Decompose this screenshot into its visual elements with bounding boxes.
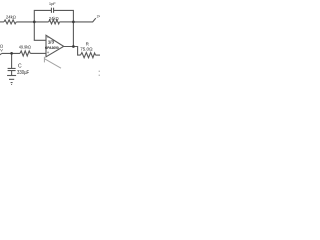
wire input left [2,52,20,54]
svg-text:1pF: 1pF [49,1,56,6]
wire output [64,47,81,56]
wire to next stage (top right) [73,18,95,22]
svg-text:−: − [47,35,50,40]
wire top branch right, down to output node [54,10,74,46]
wire capacitor to ground [11,71,13,76]
node junction dot B (feedback top right) [72,21,75,24]
resistor tail at left edge (cropped) [0,53,2,55]
ground symbol bar 3 [11,82,13,84]
resistor R2 24kOhm (feedback) [49,20,60,24]
svg-text:330µF: 330µF [17,70,30,76]
resistor R4 75.0 Ohm (output) [81,53,96,58]
wire to non-inverting input [30,52,46,54]
capacitor C1 1pF plate left [50,8,52,13]
svg-text:1/3: 1/3 [48,40,55,45]
node junction dot C (output node) [72,45,75,48]
svg-text:75.0Ω: 75.0Ω [80,46,92,51]
wire row A middle segment [16,21,48,23]
node junction dot D (input node) [10,52,13,55]
resistor R1 24kOhm (left) [4,20,16,24]
wire capacitor branch down [11,53,13,68]
wire feedback top branch up and across [34,10,51,21]
svg-text:V: V [0,48,3,52]
ground symbol bar 1 [7,75,16,77]
capacitor C2 330uF plate top [8,67,16,69]
capacitor C1 1pF plate right [53,8,55,13]
svg-text:C: C [18,63,22,69]
svg-text:24kΩ: 24kΩ [6,15,16,20]
wire output right [96,54,101,56]
ground symbol bar 4 (tiny) [11,83,12,85]
wire inverting input [34,22,46,40]
wire fragment right edge [99,70,100,72]
svg-text:+: + [47,50,50,55]
svg-text:49.9kΩ: 49.9kΩ [19,45,31,50]
svg-text:24: 24 [97,15,100,19]
svg-text:24kΩ: 24kΩ [49,16,59,21]
capacitor C2 330uF plate bottom [8,70,16,72]
op-amp U2 (next channel, partial) left edge [43,57,45,63]
resistor R3 49.9kOhm (input) [20,51,30,56]
wire row A right segment [59,21,73,23]
node junction dot A (inverting node) [33,21,36,24]
op-amp U2 top hypotenuse (faint) [44,59,61,68]
wire fragment right edge lower [99,74,100,76]
ground symbol bar 2 [9,78,14,80]
wire feedback row A left segment [0,21,4,23]
op-amp U1 triangle [46,35,64,57]
